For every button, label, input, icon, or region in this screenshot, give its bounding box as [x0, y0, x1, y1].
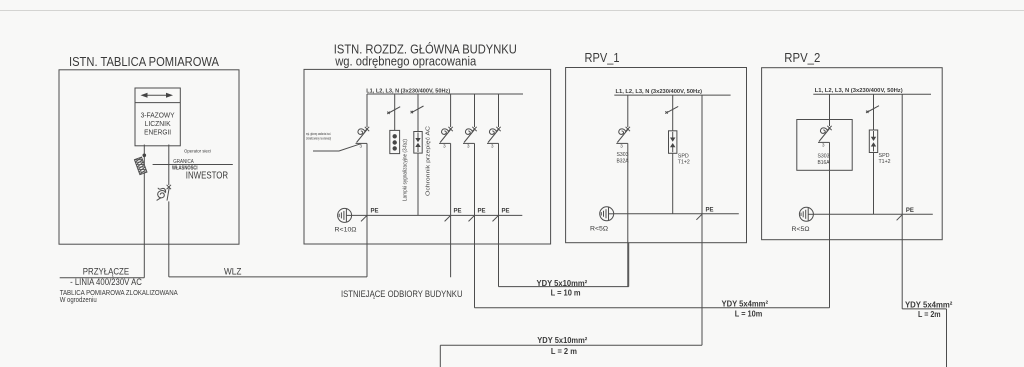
earth electrode RPV_1 R<5 [600, 207, 614, 221]
wire: busbar to surge arrester F0 [417, 94, 419, 132]
wire: meter right terminal down to main switch Q0 [168, 145, 170, 186]
wire: switch Q0 output down [168, 201, 170, 277]
wire: busbar to breaker S303 B32A [627, 95, 629, 127]
callout leader line [313, 144, 361, 151]
breaker S303 B32A [616, 127, 630, 149]
svg-text:- LINIA 400/230V AC: - LINIA 400/230V AC [70, 277, 142, 287]
svg-text:L1, L2, L3, N (3x230/400V, 50H: L1, L2, L3, N (3x230/400V, 50Hz) [366, 88, 450, 94]
junction dot on supply wire [143, 154, 147, 158]
svg-text:T1+2: T1+2 [879, 159, 891, 165]
svg-text:R<5Ω: R<5Ω [590, 227, 609, 233]
PE tick at main switch drop [361, 216, 367, 222]
svg-text:PE: PE [502, 209, 510, 215]
sheet fold line (top border of drawing area) [0, 10, 1024, 12]
wire: breaker F3 down to RPV_1 feeder [498, 143, 500, 286]
wire: arrester to PE bar [417, 153, 419, 215]
svg-text:S303: S303 [818, 154, 830, 160]
svg-text:YDY 5x10mm²: YDY 5x10mm² [537, 336, 587, 345]
wire: supply line PRZYLACZE horizontal [60, 277, 145, 279]
svg-text:3: 3 [491, 144, 494, 149]
wire: RPV_2 inverter cable down to sheet edge [946, 309, 948, 367]
wire: busbar to SPD RPV_2 [873, 94, 875, 130]
wire: SPD to PE bar RPV_2 [873, 153, 875, 215]
disconnect tick on SPD drop [665, 106, 678, 113]
svg-text:W ogrodzeniu: W ogrodzeniu [60, 295, 97, 304]
svg-text:3: 3 [467, 144, 470, 149]
svg-text:PE: PE [478, 209, 486, 215]
wire: busbar to main switch Q1 [366, 94, 368, 127]
svg-text:RPV_1: RPV_1 [585, 51, 620, 65]
svg-text:Lampki sygnalizacyjne (3-faz): Lampki sygnalizacyjne (3-faz) [403, 139, 409, 201]
svg-text:L1, L2, L3, N (3x230/400V, 50H: L1, L2, L3, N (3x230/400V, 50Hz) [815, 88, 903, 94]
wire: busbar right drop to inverter cable RPV_1 [701, 95, 703, 345]
wire: feeder to RPV_2 horizontal YDY 5x4 [475, 307, 830, 309]
breaker S303 B16A [818, 126, 832, 148]
wire: breaker F2 down to RPV_2 feeder [474, 143, 476, 307]
SPD T1+2 RPV_2 [869, 130, 877, 153]
wire: busbar to SPD RPV_1 [672, 95, 674, 131]
svg-text:L1, L2, L3, N (3x230/400V, 50H: L1, L2, L3, N (3x230/400V, 50Hz) [616, 89, 703, 95]
wire: RPV_1 inverter cable horizontal YDY 5x10 L=2m [440, 344, 702, 346]
ownership boundary line GRANICA WLASNOSCI [153, 164, 233, 166]
wire: feeder to RPV_1 horizontal YDY 5x10 [499, 286, 629, 288]
svg-text:R<5Ω: R<5Ω [792, 227, 811, 233]
disconnect tick on lamp drop [387, 107, 400, 114]
wire WLZ horizontal run [169, 276, 367, 278]
earth electrode RPV_2 R<5 [799, 207, 813, 221]
enclosure box: ISTN. TABLICA POMIAROWA [59, 70, 239, 244]
enclosure box: RPV_2 [762, 68, 943, 240]
signal lamps H1 (3x) [390, 130, 400, 153]
breaker F1 [439, 127, 453, 149]
SPD T1+2 RPV_1 [669, 131, 677, 154]
svg-text:zlokalizowany na elewacji: zlokalizowany na elewacji [306, 136, 331, 140]
svg-text:Operator sieci: Operator sieci [184, 148, 211, 154]
svg-text:wył. główny zasilania bud.: wył. główny zasilania bud. [306, 132, 331, 136]
svg-text:L = 10 m: L = 10 m [551, 289, 581, 298]
svg-text:PE: PE [706, 208, 714, 214]
svg-text:L = 10m: L = 10m [735, 310, 763, 319]
svg-text:INWESTOR: INWESTOR [186, 171, 228, 182]
enclosure box: ISTN. ROZDZ. GLOWNA BUDYNKU [304, 69, 551, 244]
svg-text:GRANICA: GRANICA [173, 159, 194, 165]
svg-text:YDY 5x10mm²: YDY 5x10mm² [537, 279, 588, 288]
busbar RPV_1 [614, 94, 730, 96]
disconnect tick on arrester drop [411, 106, 424, 113]
svg-text:WLZ: WLZ [224, 266, 242, 277]
wire: busbar to signal lamps [394, 94, 396, 130]
svg-text:Ochronnik przepięć AC: Ochronnik przepięć AC [426, 126, 432, 196]
cable head / fuse link (hatched) on incoming line [134, 157, 147, 175]
earth electrode main board R<10 [338, 208, 352, 222]
wire: RPV_1 inverter cable down to sheet edge [439, 345, 441, 367]
svg-text:SPD: SPD [879, 153, 890, 159]
PE bar RPV_1 [614, 213, 739, 215]
PE bar RPV_2 [813, 213, 932, 215]
svg-text:B16A: B16A [818, 160, 831, 166]
sub-enclosure around breaker RPV_2 [797, 120, 852, 171]
wire: busbar right drop to inverter cable RPV_2 [901, 94, 903, 309]
wire: breaker output down to feeder from main board [829, 142, 831, 307]
svg-text:L = 2m: L = 2m [918, 310, 941, 319]
surge arrester F0: Ochronnik przepiec AC [414, 132, 422, 154]
wire: breaker output down to feeder from main board [627, 143, 629, 286]
wire: busbar to breaker F1 [450, 94, 452, 127]
svg-text:PE: PE [454, 209, 462, 215]
wire: RPV_2 inverter cable horizontal YDY 5x4 L=2m [902, 308, 946, 310]
wire: meter left terminal down to supply [143, 145, 145, 278]
breaker F3 [487, 127, 501, 149]
svg-text:PRZYŁĄCZE: PRZYŁĄCZE [83, 266, 129, 277]
svg-text:L = 2 m: L = 2 m [551, 347, 577, 356]
svg-text:R<10Ω: R<10Ω [335, 228, 358, 234]
svg-text:PE: PE [906, 208, 914, 214]
wire: busbar to breaker F2 [474, 94, 476, 127]
svg-text:wg. odrębnego opracowania: wg. odrębnego opracowania [334, 55, 476, 69]
busbar L1,L2,L3,N main board [367, 93, 523, 95]
PE tick at right drop RPV_1 [696, 214, 702, 220]
svg-text:ISTN. TABLICA POMIAROWA: ISTN. TABLICA POMIAROWA [69, 55, 220, 69]
svg-text:RPV_2: RPV_2 [784, 51, 820, 65]
PE bar main board [352, 214, 523, 216]
energy meter P1: 3-FAZOWY LICZNIK ENERGII [135, 88, 180, 146]
PE tick at F2 drop [469, 216, 475, 222]
PE tick at F1 drop [445, 216, 451, 222]
svg-text:3: 3 [443, 144, 446, 149]
svg-text:3: 3 [620, 144, 623, 149]
wire: breaker F1 to existing loads (stub) [450, 143, 452, 277]
wire: busbar to breaker F3 [498, 94, 500, 127]
PE tick at F3 drop [493, 216, 499, 222]
svg-text:S303: S303 [617, 152, 629, 158]
PE tick at right drop RPV_2 [897, 215, 903, 221]
svg-text:B32A: B32A [617, 158, 630, 164]
disconnect tick on SPD drop RPV_2 [866, 106, 879, 113]
svg-text:ISTNIEJĄCE ODBIORY BUDYNKU: ISTNIEJĄCE ODBIORY BUDYNKU [341, 289, 463, 300]
enclosure box: RPV_1 [566, 68, 747, 243]
busbar RPV_2 [813, 93, 931, 95]
svg-text:YDY 5x4mm²: YDY 5x4mm² [722, 300, 769, 309]
main switch Q1 [356, 127, 370, 149]
wire: SPD to PE bar RPV_1 [672, 153, 674, 214]
switch Q0 in metering board [157, 185, 171, 201]
svg-text:T1+2: T1+2 [678, 159, 690, 165]
svg-text:ENERGII: ENERGII [144, 127, 171, 136]
svg-text:YDY 5x4mm²: YDY 5x4mm² [905, 301, 953, 310]
wire: main switch Q1 down to WLZ [366, 143, 368, 277]
wire: busbar to breaker S303 B16A [829, 94, 831, 126]
svg-text:3: 3 [822, 143, 825, 148]
svg-text:SPD: SPD [678, 153, 689, 159]
svg-text:PE: PE [371, 209, 379, 215]
breaker F2 [463, 127, 477, 149]
